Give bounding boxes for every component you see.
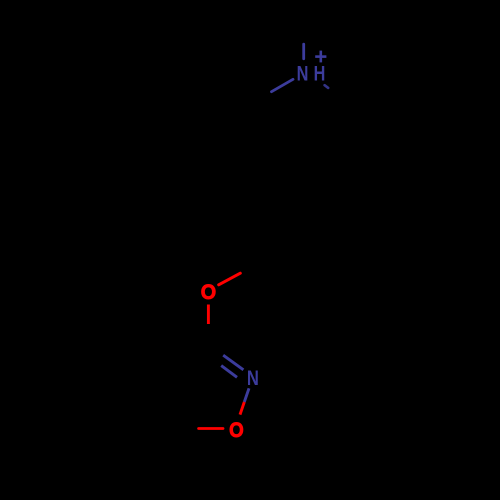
svg-text:H: H [314,63,326,86]
bond N2-O1 (N half) [244,388,249,402]
bond O-C3 ring (vertical, O half) [207,305,210,325]
bond N2-O1 (O half) [240,402,244,415]
bond O-CH2 (up-right, O half) [219,273,241,285]
double bond C3=N2 line 1 (N half) [223,355,243,370]
svg-text:O: O [201,281,216,304]
svg-text:N: N [297,62,309,85]
bond N1-CH3 (vertical, N half) [302,44,305,59]
charge plus sign [315,51,326,63]
bond N1-CH3 (down-left, N half) [272,79,294,91]
svg-text:O: O [229,419,244,442]
bond O1-C5 (horizontal, O half) [199,427,223,430]
svg-text:N: N [247,367,259,390]
bond N1-CH2 chain (stub, N half) [325,85,329,88]
double bond C3=N2 line 2 (inner, N half) [221,366,237,378]
